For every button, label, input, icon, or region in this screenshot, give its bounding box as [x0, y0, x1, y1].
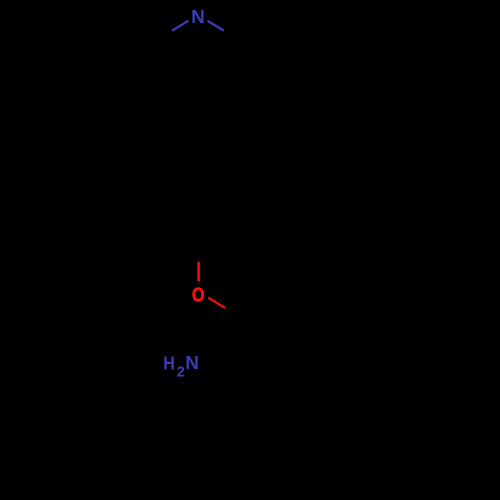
svg-text:N: N [185, 353, 199, 374]
svg-text:2: 2 [177, 364, 185, 380]
svg-text:O: O [192, 283, 205, 306]
svg-text:H: H [163, 352, 175, 374]
svg-text:N: N [191, 7, 205, 28]
